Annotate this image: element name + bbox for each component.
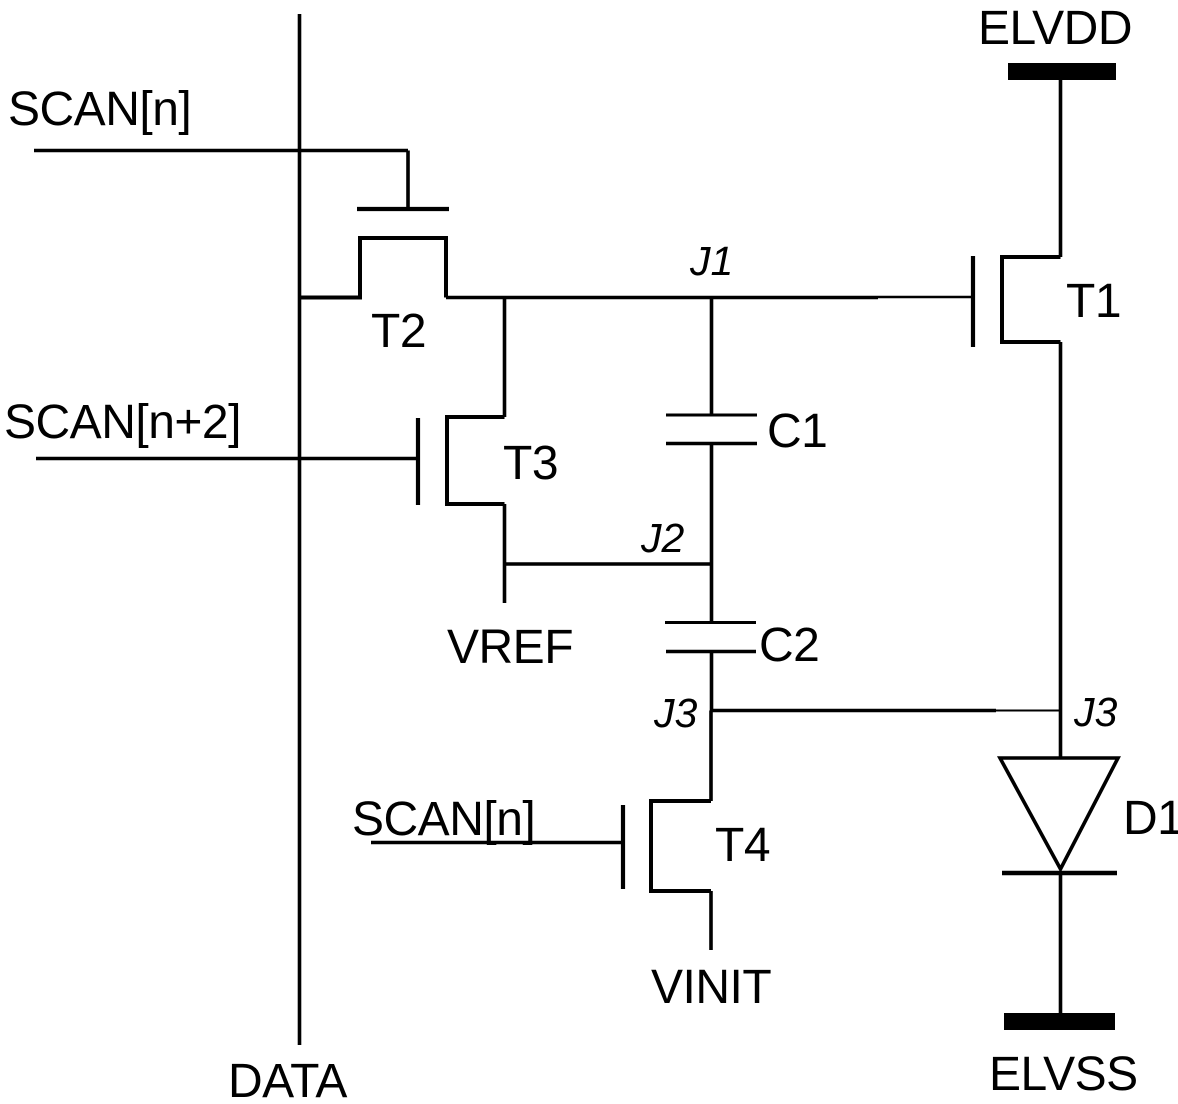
capacitor C2 bottom plate	[666, 650, 756, 653]
transistor T3 gate bar	[416, 418, 420, 505]
svg-text:C1: C1	[767, 405, 827, 458]
power rail ELVSS bar	[1004, 1013, 1115, 1030]
transistor T2 gate bar	[357, 207, 449, 211]
svg-text:SCAN[n]: SCAN[n]	[8, 83, 191, 136]
capacitor C1 bottom plate	[666, 442, 757, 445]
svg-text:ELVDD: ELVDD	[978, 2, 1132, 55]
wire J3 down to T4 drain	[709, 711, 713, 802]
capacitor C2 top plate	[665, 621, 756, 624]
svg-text:T1: T1	[1066, 275, 1121, 328]
transistor T3 channel	[447, 417, 505, 504]
transistor T4 channel	[651, 801, 711, 891]
transistor T4 gate bar	[621, 805, 625, 889]
transistor T2 channel	[300, 238, 447, 298]
wire node J3 horizontal	[712, 709, 997, 713]
wire C1 to C2	[710, 444, 714, 623]
wire T4 source down to VINIT	[709, 891, 713, 950]
svg-text:SCAN[n]: SCAN[n]	[352, 793, 535, 846]
diode D1 triangle	[1000, 758, 1118, 869]
svg-text:C2: C2	[759, 619, 819, 672]
svg-text:J3: J3	[1073, 689, 1118, 735]
transistor T1 channel	[1002, 257, 1061, 342]
svg-text:J1: J1	[689, 238, 733, 284]
svg-text:T4: T4	[715, 819, 770, 872]
transistor T1 gate bar	[971, 256, 975, 347]
wire SCAN[n] bottom lead to T4 gate	[371, 841, 623, 845]
svg-text:VREF: VREF	[447, 621, 573, 674]
svg-text:SCAN[n+2]: SCAN[n+2]	[4, 396, 241, 449]
wire SCAN[n+2] lead	[36, 457, 418, 461]
wire branch J1 down to T3/C1	[503, 298, 507, 418]
svg-text:ELVSS: ELVSS	[989, 1048, 1138, 1101]
diode D1 cathode bar	[1002, 871, 1117, 876]
wire diode to ELVSS	[1059, 873, 1063, 1013]
wire SCAN[n] gate drop to T2	[406, 151, 410, 210]
wire node J3 horizontal thin right segment	[996, 710, 1061, 712]
svg-text:D1: D1	[1123, 792, 1178, 845]
wire node J1 horizontal thin right segment	[878, 296, 973, 298]
svg-text:VINIT: VINIT	[651, 961, 771, 1014]
wire T1 source down past J3 to diode	[1059, 342, 1063, 757]
wire C2 to J3	[710, 652, 714, 711]
svg-text:J2: J2	[640, 515, 685, 561]
wire node J1 horizontal (T2 source to T1 gate)	[446, 296, 878, 300]
wire J1 down to C1	[710, 298, 714, 416]
svg-text:T2: T2	[371, 305, 426, 358]
capacitor C1 top plate	[666, 414, 757, 417]
wire node J2 horizontal	[505, 562, 712, 566]
wire ELVDD to T1 drain	[1059, 80, 1063, 257]
wire T3 source down past J2 to VREF stub	[503, 504, 507, 603]
svg-text:J3: J3	[653, 690, 698, 736]
svg-text:DATA: DATA	[228, 1055, 347, 1104]
power rail ELVDD bar	[1008, 63, 1116, 80]
wire DATA vertical line	[298, 14, 302, 1045]
wire SCAN[n] top horizontal lead	[34, 149, 408, 153]
svg-text:T3: T3	[503, 437, 558, 490]
